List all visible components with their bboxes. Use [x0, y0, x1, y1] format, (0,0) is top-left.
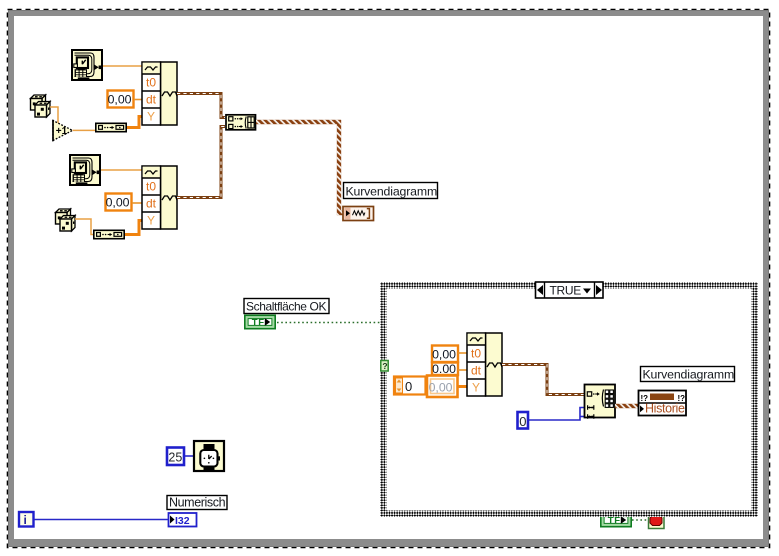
iteration terminal i — [19, 512, 34, 527]
numeric constant 0,00 #2 — [106, 194, 132, 211]
svg-text:Kurvendiagramm: Kurvendiagramm — [346, 185, 438, 199]
waveform wire bw3 to initialize array — [502, 365, 584, 395]
build waveform 2 — [142, 166, 177, 229]
label Kurvendiagramm 1 — [344, 183, 438, 199]
svg-text:i: i — [24, 513, 27, 527]
random number dice 1 — [31, 95, 51, 117]
wire U2 to build waveform 2 — [101, 169, 142, 171]
wire 0 to dimension inputs — [529, 408, 584, 421]
random number dice 2 — [56, 209, 76, 231]
svg-text:I32: I32 — [175, 515, 190, 527]
wire 0,00#1 to dt — [134, 99, 142, 101]
numeric constant 0 (blue) — [518, 412, 529, 429]
svg-text:0,00: 0,00 — [108, 93, 132, 107]
case selector label TRUE — [536, 282, 604, 298]
waveform wire bw2 to merge — [177, 127, 225, 198]
wire dice1 to increment — [50, 107, 58, 123]
svg-text:0,00: 0,00 — [432, 348, 456, 362]
waveform chart terminal 1 — [343, 207, 374, 221]
wire array to Y (array DBL) — [458, 385, 467, 388]
svg-text:Historie: Historie — [645, 402, 685, 416]
wire 0,00#2 to dt — [132, 202, 142, 204]
label Schaltfläche OK — [244, 299, 329, 314]
waveform wire bw1 to merge — [177, 94, 225, 118]
boolean terminal Schaltfläche OK — [245, 315, 275, 328]
build waveform 1 — [142, 62, 177, 125]
wire U1 to build waveform 1 — [103, 65, 142, 67]
get date/time in seconds U1 — [72, 50, 102, 80]
array constant: index box — [394, 377, 426, 395]
numeric constant 25 — [167, 448, 184, 466]
label Numerisch — [167, 496, 227, 510]
build waveform 3 — [467, 333, 502, 396]
array constant: element 0,00 (grayed) — [427, 376, 458, 398]
svg-text:Kurvendiagramm: Kurvendiagramm — [643, 368, 735, 382]
svg-text:Numerisch: Numerisch — [169, 496, 226, 510]
svg-text:25: 25 — [168, 450, 182, 464]
wire build array 1 to Y (array DBL) — [127, 117, 142, 128]
boolean terminal (stop) inside loop bottom — [601, 513, 631, 526]
increment +1 Q1 — [53, 120, 73, 141]
svg-text:0: 0 — [519, 414, 526, 429]
svg-text:TRUE: TRUE — [550, 284, 582, 298]
boolean dotted wire to case — [277, 322, 380, 324]
waveform-array wire merge to chart — [256, 122, 343, 213]
wire i to I32 — [35, 519, 169, 521]
wire t0 — [458, 352, 467, 354]
svg-text:?: ? — [382, 361, 387, 371]
svg-text:+1: +1 — [56, 126, 68, 137]
I32 indicator terminal Numerisch — [169, 513, 197, 527]
wire increment to build array 1 — [73, 129, 96, 131]
wire dice2 to build array 2 — [75, 219, 93, 235]
label Kurvendiagramm 2 — [641, 367, 735, 382]
svg-text:0,00: 0,00 — [429, 381, 453, 395]
svg-text:0.00: 0.00 — [432, 362, 456, 376]
svg-text:0,00: 0,00 — [106, 196, 130, 210]
property node Kurvendiagramm — [639, 391, 687, 416]
boolean dotted wire TF to stop button — [632, 519, 648, 521]
numeric constant 0.00 B (dt) — [432, 362, 458, 376]
case selector tunnel ? — [381, 361, 388, 372]
build array (2 inputs) merge node — [226, 115, 256, 130]
initialize array node — [585, 385, 616, 419]
numeric constant 0,00 #1 — [108, 91, 134, 108]
case structure checkered border — [380, 282, 758, 517]
get date/time in seconds U2 — [70, 155, 100, 185]
wait (ms) node — [194, 441, 224, 472]
build array node 2 — [94, 230, 124, 238]
svg-text:Schaltfläche OK: Schaltfläche OK — [246, 300, 326, 314]
wire build array 2 to Y (array DBL) — [125, 221, 142, 235]
svg-text:0: 0 — [405, 379, 412, 394]
loop condition stop button — [649, 513, 665, 529]
waveform-array wire init array to property node — [615, 404, 638, 408]
wire 25 to wait — [185, 455, 193, 457]
build array node 1 — [96, 123, 126, 131]
numeric constant 0,00 A (t0) — [432, 346, 458, 363]
wire dt — [458, 369, 467, 371]
